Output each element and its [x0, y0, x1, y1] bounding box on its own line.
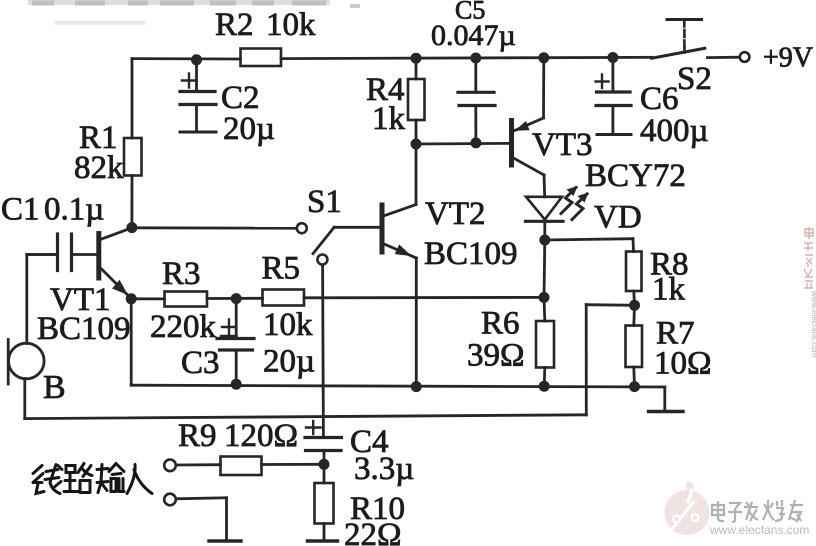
wire emitter bottom rail: [131, 385, 665, 387]
resistor R7: [626, 326, 643, 368]
switch S2 button stem: [683, 20, 686, 27]
microphone B circle: [9, 343, 45, 379]
capacitor C4 polarity mark: [306, 426, 321, 428]
junction dot C5 top: [470, 53, 481, 64]
svg-text:www.elecfans.com: www.elecfans.com: [709, 523, 809, 537]
junction dot R6 top: [539, 292, 550, 303]
wire long bottom-left rail: [25, 415, 587, 419]
watermark right edge CJK (pink): [804, 227, 813, 288]
watermark bottom CJK 电子发烧友: [712, 500, 803, 522]
svg-text:22Ω: 22Ω: [344, 517, 402, 546]
ground bar R10: [308, 539, 338, 542]
svg-text:0.1µ: 0.1µ: [44, 192, 104, 228]
capacitor C3 plates: [217, 337, 254, 340]
svg-text:C3: C3: [181, 345, 220, 381]
wire S1 bottom terminal down to C4: [321, 265, 325, 438]
svg-text:0.047µ: 0.047µ: [431, 19, 516, 52]
junction dot C5 bottom: [470, 137, 481, 148]
wire VD node down to R6 node: [543, 240, 547, 297]
wire VT2 collector up to R4: [415, 144, 418, 205]
svg-text:VT2: VT2: [425, 196, 486, 232]
char 输: [97, 465, 108, 493]
wire R7 top stem: [632, 305, 636, 325]
wire VT2 emitter down: [415, 258, 418, 387]
wire R6 top stem: [543, 297, 547, 321]
wire VD stem: [543, 221, 546, 240]
wire R4 node to VT3 base: [416, 142, 510, 145]
char 线: [33, 466, 44, 494]
capacitor C6 polarity mark: [596, 80, 609, 82]
svg-text:VD: VD: [594, 200, 642, 236]
svg-text:B: B: [43, 369, 66, 406]
wire VT1 emitter node down: [130, 299, 133, 385]
capacitor C4 bottom stem: [323, 451, 326, 464]
LED flash arrow 1: [561, 188, 576, 214]
wire R8 bottom stem: [632, 291, 636, 305]
wire S1 to VT2 base: [334, 226, 380, 229]
svg-text:S2: S2: [677, 61, 712, 97]
wire line-in drop: [225, 498, 228, 541]
resistor R2: [241, 49, 282, 67]
wire mic top up: [25, 255, 28, 344]
junction dot C3 top: [231, 293, 242, 304]
transistor VT1 collector: [99, 228, 132, 240]
wire link down to bottom-left rail: [585, 305, 588, 415]
capacitor C6 bottom stem: [612, 106, 615, 135]
capacitor C5 plates: [458, 91, 494, 94]
LED flash arrowhead 2: [578, 193, 589, 203]
resistor R5: [263, 290, 305, 306]
svg-text:C1: C1: [1, 192, 40, 228]
wire base node to S1: [132, 226, 298, 229]
transistor VT1 emitter: [99, 267, 131, 299]
resistor R3: [165, 292, 208, 307]
wire R1 bottom stem: [130, 176, 133, 228]
capacitor C2 end bar: [180, 131, 216, 134]
wire R4 top stem: [415, 58, 418, 79]
svg-text:120Ω: 120Ω: [224, 418, 298, 454]
junction dot VD cathode: [539, 235, 550, 246]
transistor VT3 emitter arrowhead: [515, 121, 530, 131]
faint cropped text top edge: [28, 3, 360, 24]
svg-text:39Ω: 39Ω: [467, 338, 525, 374]
capacitor C4 plates: [305, 436, 342, 439]
capacitor C2 polarity mark: [182, 79, 197, 81]
switch S1 bottom terminal: [317, 255, 327, 265]
wire R8 node to left link: [586, 303, 634, 306]
wire R4 bottom stem: [415, 120, 418, 144]
capacitor C6 plates: [597, 90, 631, 93]
wire mic bottom down: [23, 379, 26, 419]
wire R5 to R6 top node: [304, 296, 544, 299]
resistor R1: [124, 138, 142, 176]
terminal line-in upper: [164, 460, 176, 472]
transistor VT2 base bar: [380, 203, 385, 255]
switch S2 dashed link: [683, 30, 686, 37]
svg-text:VT3: VT3: [532, 127, 593, 163]
resistor R10: [315, 483, 334, 524]
capacitor C5 top stem: [474, 58, 477, 92]
capacitor C3 polarity mark: [222, 326, 236, 328]
capacitor C6 top stem: [612, 58, 615, 93]
junction dot R8 bottom: [629, 300, 640, 311]
wire node to R3: [131, 297, 164, 300]
junction dot R7 bottom: [629, 381, 640, 392]
switch S2 button bar: [667, 18, 702, 21]
wire VT3 collector down to VD: [543, 175, 547, 197]
wire R1 top stem: [131, 59, 134, 138]
junction dot VT1 emitter: [126, 293, 137, 304]
diode VD cathode bar: [526, 220, 564, 223]
svg-text:R3: R3: [162, 256, 201, 292]
char 路: [64, 466, 78, 492]
svg-text:R2: R2: [215, 7, 254, 43]
wire R8 top drop: [632, 239, 635, 252]
junction dot R4 bottom: [411, 139, 422, 150]
svg-text:3.3µ: 3.3µ: [354, 451, 414, 487]
svg-text:82k: 82k: [74, 150, 124, 186]
wire top rail right segment: [281, 57, 652, 58]
ground bar line-in: [209, 539, 241, 542]
transistor VT2 collector diagonal: [384, 205, 417, 217]
wire top rail left segment: [132, 57, 241, 60]
transistor VT3 emitter diagonal: [514, 118, 544, 131]
wire R3 to R5: [207, 297, 263, 300]
switch S1 left terminal: [297, 223, 307, 233]
junction dot C6 top: [607, 52, 618, 63]
svg-text:BC109: BC109: [37, 311, 131, 347]
capacitor C5 bottom stem: [474, 106, 477, 143]
wire R10 bottom stem: [323, 524, 326, 542]
svg-text:10Ω: 10Ω: [654, 346, 712, 382]
microphone B flat bar: [7, 340, 10, 385]
capacitor C2 plates: [180, 90, 215, 93]
terminal line-in lower: [164, 494, 176, 506]
wire R9 terminal to R9: [176, 463, 221, 466]
junction dot C3 bottom: [231, 379, 242, 390]
watermark logo disc bottom right: [665, 481, 710, 535]
transistor VT3 emitter vertical: [542, 58, 545, 118]
junction dot R4 top: [411, 53, 422, 64]
wire line-in lower terminal: [176, 498, 227, 499]
junction dot C4 bottom: [319, 459, 330, 470]
transistor VT2 emitter arrowhead: [395, 244, 412, 256]
svg-text:20µ: 20µ: [263, 344, 315, 380]
capacitor C1 plates: [56, 234, 59, 271]
transistor VT1 emitter arrowhead: [112, 280, 128, 295]
transistor VT3 base bar: [509, 118, 514, 168]
svg-text:1k: 1k: [652, 272, 686, 308]
LED flash arrowhead 1: [567, 186, 578, 196]
svg-text:BCY72: BCY72: [585, 158, 686, 194]
wire S2 to +9V terminal: [708, 56, 740, 59]
svg-text:BC109: BC109: [424, 236, 518, 272]
switch S1 lever: [313, 227, 334, 253]
transistor VT1 base bar: [96, 231, 101, 281]
resistor R9: [221, 457, 262, 476]
svg-text:20µ: 20µ: [223, 111, 275, 147]
junction dot base node: [126, 222, 137, 233]
svg-text:R6: R6: [481, 306, 520, 342]
capacitor C6 end bar: [597, 133, 631, 136]
wire VD node to R8: [545, 239, 633, 240]
svg-text:C6: C6: [640, 81, 679, 117]
junction dot top C2: [191, 54, 202, 65]
wire R6 bottom stem: [543, 368, 546, 387]
junction dot R6 bottom: [539, 381, 550, 392]
capacitor C2 top stem: [195, 60, 198, 92]
LED flash arrow 2: [572, 194, 587, 220]
char 入: [127, 465, 152, 494]
svg-text:220k: 220k: [150, 309, 217, 345]
resistor R8: [626, 252, 642, 292]
wire R7 bottom stem: [632, 367, 636, 387]
junction dot VT2 emitter rail: [411, 381, 422, 392]
wire C1 to VT1 base: [73, 253, 97, 256]
wire R9 to C4 node: [262, 463, 325, 466]
resistor R6: [536, 321, 554, 368]
svg-text:+9V: +9V: [763, 43, 813, 74]
svg-text:400µ: 400µ: [640, 113, 709, 149]
transistor VT3 collector diagonal: [513, 158, 545, 176]
resistor R4: [408, 79, 425, 120]
svg-text:S1: S1: [307, 184, 342, 220]
ground bar right: [649, 410, 684, 413]
svg-text:10k: 10k: [266, 7, 316, 43]
wire ground stem right: [663, 387, 666, 412]
text 线路输入 (hand-drawn strokes): [33, 464, 152, 494]
capacitor C3 bottom stem: [235, 350, 238, 384]
capacitor C2 bottom stem: [195, 105, 198, 133]
terminal +9V: [740, 52, 750, 62]
capacitor C1 left lead: [27, 253, 56, 256]
capacitor C3 top stem: [235, 299, 238, 339]
switch S2 lever: [652, 48, 705, 58]
wire R10 top stem: [323, 464, 326, 483]
diode VD triangle: [526, 197, 562, 220]
svg-text:R9: R9: [178, 418, 217, 454]
wire mic to C1: [27, 253, 56, 256]
transistor VT2 emitter diagonal: [383, 244, 416, 259]
svg-text:10k: 10k: [263, 307, 313, 343]
junction dot VT3 emitter: [538, 52, 549, 63]
svg-text:1k: 1k: [372, 101, 406, 137]
svg-text:www.elecfans.com: www.elecfans.com: [810, 290, 816, 358]
svg-text:R5: R5: [262, 251, 301, 287]
